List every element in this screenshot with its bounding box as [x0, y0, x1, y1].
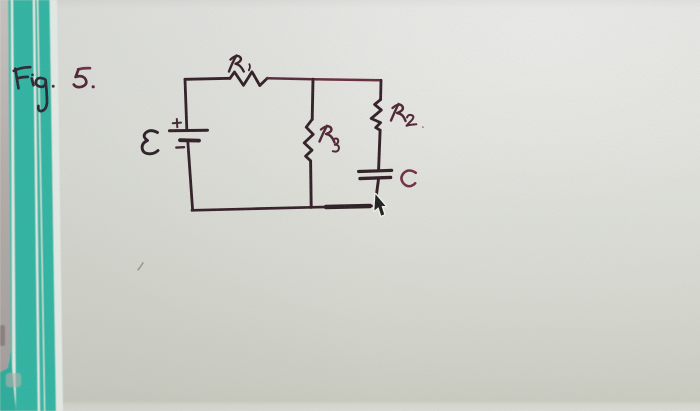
capacitor C plates	[359, 170, 392, 171]
wire R3 to bottom	[309, 161, 313, 208]
mouse cursor	[374, 194, 386, 216]
battery minus sign	[176, 146, 184, 149]
stray pen speck	[138, 263, 143, 270]
label R1	[229, 56, 250, 72]
wire top-left to R1	[185, 78, 230, 79]
wire capacitor to bottom node	[376, 180, 378, 197]
wire left vertical upper	[185, 79, 187, 129]
label R3	[320, 126, 339, 152]
red dust speck	[422, 126, 424, 128]
resistor R2	[371, 100, 381, 131]
wire left vertical lower	[188, 141, 193, 210]
resistor R1	[230, 72, 267, 86]
bottom wire thick overdraw	[326, 206, 370, 207]
wire bottom right segment	[311, 206, 371, 207]
wire R2 to capacitor	[379, 130, 381, 169]
label R2	[391, 104, 416, 126]
battery plus sign	[173, 119, 181, 127]
figure caption "Fig. 5."	[14, 67, 95, 111]
battery EMF source plates	[170, 129, 208, 133]
label C	[401, 171, 415, 187]
wire R1 to node A	[267, 78, 313, 79]
wire node A to top-right corner	[313, 79, 381, 80]
wire node A down to R3	[311, 79, 315, 119]
wire bottom left segment	[192, 207, 311, 210]
wire right vertical upper	[379, 80, 382, 99]
label epsilon	[142, 131, 158, 154]
resistor R3	[304, 119, 313, 161]
